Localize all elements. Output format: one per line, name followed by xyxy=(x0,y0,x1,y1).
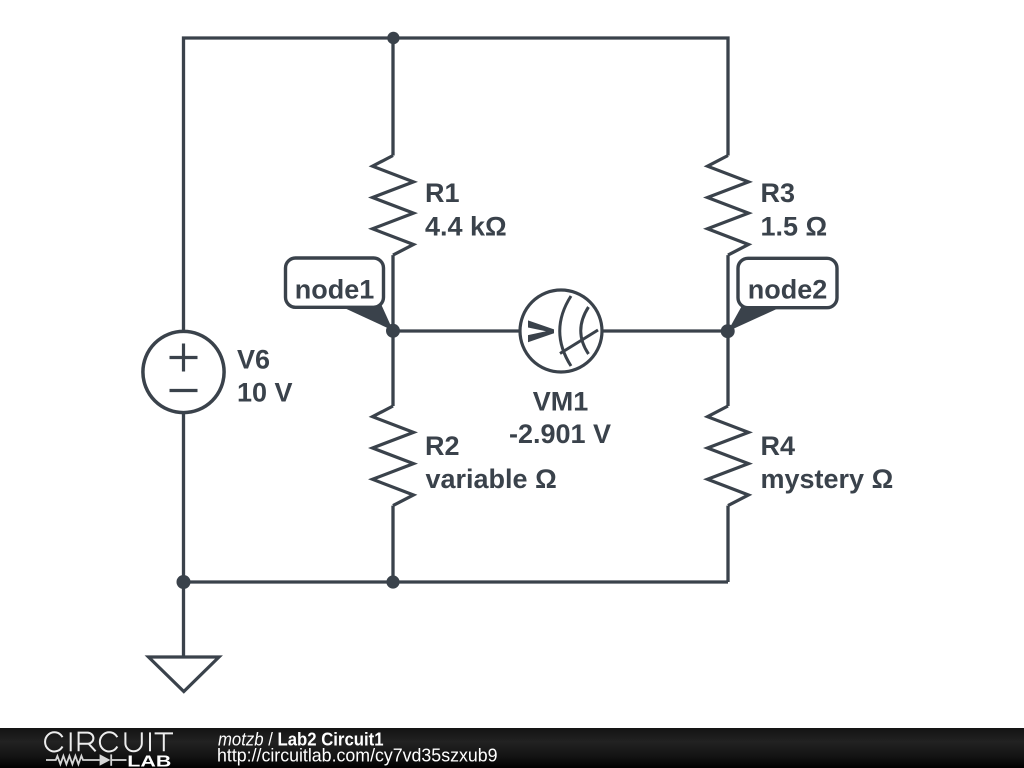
svg-text:R4: R4 xyxy=(761,431,796,461)
I xyxy=(70,732,72,751)
footer bar xyxy=(0,728,1024,768)
VM1 body circle xyxy=(520,290,602,372)
wire middle right (VM1 to node2) xyxy=(602,329,729,332)
svg-text:R3: R3 xyxy=(761,178,796,208)
resistor R1 xyxy=(373,156,414,256)
voltmeter VM1 xyxy=(520,290,602,372)
C xyxy=(45,732,62,751)
junction dot bottom mid xyxy=(386,575,399,588)
logo CIRCUIT lettering xyxy=(45,732,173,751)
wire top rail xyxy=(184,38,729,332)
V6 plus sign xyxy=(170,356,198,359)
svg-text:10 V: 10 V xyxy=(237,378,293,408)
VM1 chevron mark xyxy=(528,320,554,342)
svg-text:LAB: LAB xyxy=(127,753,171,768)
svg-text:-2.901 V: -2.901 V xyxy=(509,419,611,449)
wire R4 top lead xyxy=(726,331,729,406)
svg-text:V6: V6 xyxy=(237,345,270,375)
svg-text:R2: R2 xyxy=(425,431,460,461)
resistor R4 xyxy=(708,406,749,506)
wire R2 top lead xyxy=(391,331,394,406)
svg-text:R1: R1 xyxy=(425,178,460,208)
wire R2 bottom lead xyxy=(391,506,394,582)
wire R1 bottom lead xyxy=(391,255,394,331)
junction dot bottom left xyxy=(177,575,191,589)
junction dot top rail xyxy=(387,32,399,44)
svg-text:variable Ω: variable Ω xyxy=(426,464,557,494)
wire R4 bottom lead xyxy=(726,506,729,582)
wire ground stub xyxy=(182,582,185,657)
VM1 inner arc left xyxy=(560,296,571,366)
logo diode xyxy=(100,754,111,766)
svg-text:VM1: VM1 xyxy=(533,386,589,416)
node A callout node1 xyxy=(286,258,394,331)
wire bottom rail xyxy=(184,413,729,583)
wire mid rail R1 top lead xyxy=(391,38,394,156)
junction dot node1 xyxy=(386,324,400,338)
svg-text:node1: node1 xyxy=(295,274,375,304)
ground xyxy=(149,657,220,692)
VM1 inner arc right xyxy=(581,307,589,354)
logo resistor-diode squiggle xyxy=(46,754,127,765)
V6 minus sign xyxy=(170,389,198,392)
svg-text:http://circuitlab.com/cy7vd35s: http://circuitlab.com/cy7vd35szxub9 xyxy=(217,746,498,766)
junction dot node2 xyxy=(721,324,735,338)
svg-text:mystery Ω: mystery Ω xyxy=(761,464,894,494)
svg-text:4.4 kΩ: 4.4 kΩ xyxy=(425,212,507,242)
svg-text:node2: node2 xyxy=(748,274,828,304)
resistor R2 xyxy=(373,406,414,506)
I xyxy=(149,732,151,751)
U xyxy=(125,732,141,751)
VM1 needle line xyxy=(560,330,598,354)
resistor R3 xyxy=(708,156,749,256)
T xyxy=(155,733,173,751)
R xyxy=(79,733,96,752)
V6 body circle xyxy=(143,331,224,412)
voltage source V6 xyxy=(143,331,224,412)
node B callout node2 xyxy=(728,258,837,331)
C xyxy=(100,732,117,751)
wire middle left (node1 to VM1) xyxy=(393,329,521,332)
wire R3 bottom lead xyxy=(726,255,729,331)
svg-text:1.5 Ω: 1.5 Ω xyxy=(761,212,828,242)
